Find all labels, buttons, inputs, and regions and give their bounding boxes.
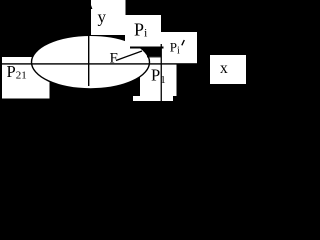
bottom white bar <box>133 96 173 101</box>
node Pi label box <box>125 15 161 47</box>
vertical wire through P1 <box>161 44 162 101</box>
y axis arrowhead <box>85 0 93 9</box>
ellipse <box>32 35 150 89</box>
y axis wire <box>88 6 89 86</box>
node P1 label box <box>140 56 177 96</box>
node Pi-prime label box <box>161 32 197 63</box>
right-angle marker top bar at P1 <box>147 56 161 57</box>
radius wire F to ellipse <box>116 51 142 61</box>
svg-text:F: F <box>110 51 118 67</box>
svg-text:y: y <box>98 8 107 27</box>
node x label box <box>210 55 246 84</box>
canvas <box>0 0 248 128</box>
x axis wire <box>2 63 210 64</box>
svg-text:x: x <box>220 60 228 77</box>
node y label box <box>91 0 125 35</box>
node P21 label box <box>2 57 50 99</box>
prime mark of Pi-prime <box>182 40 185 45</box>
dash pointer before Pi-prime <box>130 47 164 49</box>
